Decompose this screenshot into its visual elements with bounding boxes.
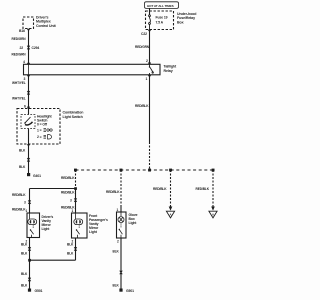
wire glove drop (dashed)	[120, 170, 122, 206]
svg-text:BLK: BLK	[19, 165, 26, 169]
wire label BLK	[19, 165, 26, 169]
pin 2	[146, 59, 148, 63]
wire label RED/BLK	[61, 176, 75, 180]
svg-text:3: 3	[24, 200, 26, 204]
wire label RED/BLK glove	[106, 190, 120, 194]
svg-text:0 = Off: 0 = Off	[37, 123, 48, 127]
svg-text:G501: G501	[35, 289, 43, 293]
svg-text:Box: Box	[177, 20, 184, 24]
label position 2 headlight icon	[37, 135, 42, 139]
wire label BLK	[21, 243, 28, 247]
svg-text:RED/BLK: RED/BLK	[196, 187, 210, 191]
svg-text:2: 2	[117, 240, 119, 244]
ground G401	[27, 173, 30, 176]
wire label BLK	[67, 243, 74, 247]
connector C22	[148, 30, 151, 32]
wire label BLK	[67, 251, 74, 255]
wire label RED/BLK	[135, 104, 149, 108]
wire fuse to relay pin 2	[149, 30, 151, 65]
lamp front passenger's vanity mirror light box	[72, 213, 88, 238]
wire from hot tag into fuse box	[149, 8, 151, 14]
wire label BLK	[21, 272, 28, 276]
svg-text:B16: B16	[19, 29, 25, 33]
svg-text:WHT/YEL: WHT/YEL	[12, 97, 26, 101]
svg-text:3: 3	[70, 198, 72, 202]
wire label RED/BLK arrow B	[196, 187, 210, 191]
wire label RED/BLK driver	[12, 193, 26, 197]
bulb symbol passenger	[74, 213, 83, 225]
label Front Passenger's Vanity Mirror Light	[89, 214, 108, 234]
wire label BLK	[21, 251, 28, 255]
label position 1 parking icon	[37, 128, 42, 132]
junction at feed	[148, 169, 151, 172]
svg-text:RED/BLK: RED/BLK	[12, 193, 26, 197]
headlight switch rotary contact	[24, 117, 32, 125]
svg-text:RED/BLK: RED/BLK	[106, 190, 120, 194]
wire label WHT/YEL	[12, 97, 26, 101]
svg-text:RED/BLK: RED/BLK	[153, 187, 167, 191]
wire relay pin1 down (solid part) RED/BLK	[149, 75, 151, 142]
pin tick relay pin4	[27, 63, 30, 65]
pin tick at B16	[27, 29, 30, 31]
wire combination switch to G401	[28, 144, 30, 173]
wire label BLK	[19, 149, 26, 153]
distribution wire to driver column	[30, 189, 76, 213]
svg-text:RED/BLK: RED/BLK	[12, 207, 26, 211]
switch inside driver light	[30, 224, 34, 237]
wire relay pin3 to combination light switch pin 6	[28, 75, 30, 109]
svg-text:G501: G501	[126, 289, 134, 293]
junction at glove drop	[120, 169, 123, 172]
combination light switch outer dashed box	[17, 109, 60, 145]
junction driver/passenger ground joint	[28, 259, 31, 262]
wire glove solid to light	[120, 206, 122, 213]
wire label RED/GRN	[12, 37, 27, 41]
svg-text:BLK: BLK	[67, 251, 74, 255]
svg-text:Light: Light	[129, 221, 138, 225]
svg-text:4: 4	[23, 60, 25, 64]
svg-text:1: 1	[26, 209, 28, 213]
svg-text:G401: G401	[33, 174, 41, 178]
pin 2 glove light bottom	[117, 240, 119, 244]
off-page connector arrow A	[166, 207, 174, 218]
connector tick mid	[27, 91, 30, 95]
wire into headlight switch	[28, 109, 30, 115]
pin tick switch pin6	[27, 107, 30, 109]
relay switch contact	[149, 64, 154, 75]
svg-text:BLK: BLK	[21, 251, 28, 255]
wire passenger column to light	[75, 189, 77, 213]
wire multiplex B16 to relay pin 4	[28, 29, 30, 65]
ground G501 left	[28, 289, 31, 292]
junction at arrow B drop	[212, 169, 215, 172]
lamp glove box light	[117, 212, 127, 238]
pin 1 driver light	[26, 209, 28, 213]
wire label RED/BLK passenger	[61, 190, 75, 194]
svg-text:Light: Light	[42, 227, 51, 231]
junction at arrow A drop	[169, 169, 172, 172]
connector tick glove ground	[120, 271, 123, 275]
lamp driver's vanity mirror light box	[27, 213, 40, 238]
wire switch to ground exit	[28, 129, 30, 145]
svg-text:1 =: 1 =	[37, 128, 42, 132]
connector tick passenger ground	[74, 247, 77, 251]
svg-text:RED/GRN: RED/GRN	[12, 53, 27, 57]
pin 3	[24, 77, 26, 81]
svg-text:7.5 A: 7.5 A	[156, 20, 164, 24]
svg-text:Fuse 19: Fuse 19	[156, 15, 168, 19]
svg-text:2: 2	[146, 59, 148, 63]
pin tick switch ground exit	[27, 144, 30, 146]
pin B16	[19, 29, 25, 33]
label Fuse 19 7.5A	[156, 15, 168, 24]
connector tick driver ground	[28, 247, 31, 251]
pin 1	[146, 77, 148, 81]
wire label RED/GRN	[12, 53, 27, 57]
junction at passenger column	[74, 187, 77, 190]
label Driver's Vanity Mirror Light	[42, 215, 54, 231]
pin 2 passenger light bottom	[72, 240, 74, 244]
pin 4	[23, 60, 25, 64]
wire label RED/BLK arrow A	[153, 187, 167, 191]
off-page connector arrow B	[209, 207, 217, 218]
wire glove light to ground	[120, 238, 122, 289]
wire label RED/BLK driver lower	[12, 207, 26, 211]
wire dashed part to splice bus	[149, 142, 151, 170]
ground G501 glove	[119, 289, 122, 292]
headlight switch S1 inner dashed box	[21, 115, 35, 129]
svg-text:1: 1	[117, 208, 119, 212]
svg-text:3: 3	[24, 77, 26, 81]
label Combination Light Switch	[63, 111, 84, 119]
svg-text:RED/GRN: RED/GRN	[135, 45, 150, 49]
connector tick passenger feed	[74, 198, 77, 202]
wire label WHT/YEL	[12, 81, 26, 85]
wire label BLK	[21, 283, 28, 287]
wire label RED/GRN	[135, 45, 150, 49]
connector tick	[27, 158, 30, 162]
wire arrow A drop (dashed)	[170, 170, 172, 207]
svg-text:Light Switch: Light Switch	[63, 115, 83, 119]
fuse F19 symbol	[149, 15, 151, 30]
wire label BLK	[113, 250, 120, 254]
pin tick relay pin3	[27, 75, 30, 77]
svg-text:RED/GRN: RED/GRN	[12, 37, 27, 41]
svg-text:2 =: 2 =	[37, 135, 42, 139]
svg-text:Light: Light	[89, 230, 98, 234]
junction at passenger drop	[74, 169, 77, 172]
relay K1 Taillight Relay box	[24, 64, 161, 75]
pin 1 glove light	[117, 208, 119, 212]
svg-text:BLK: BLK	[21, 272, 28, 276]
fuse box (under-hood fuse/relay box, dashed)	[146, 11, 174, 30]
wire passenger light to joint	[30, 238, 76, 260]
relay coil path pin4 to pin3	[28, 64, 30, 75]
svg-text:RED/BLK: RED/BLK	[135, 104, 149, 108]
svg-text:22: 22	[20, 46, 24, 50]
pin 6	[24, 104, 26, 108]
bulb symbol glove	[118, 212, 124, 223]
switch inside passenger light	[76, 224, 80, 238]
connector tick driver feed	[28, 200, 31, 204]
svg-text:A: A	[212, 212, 214, 216]
wire passenger drop (dashed to distribution line)	[75, 170, 77, 189]
svg-text:RED/BLK: RED/BLK	[61, 190, 75, 194]
wire driver light to ground joint	[29, 238, 31, 261]
svg-text:RED/BLK: RED/BLK	[61, 176, 75, 180]
svg-text:C294: C294	[32, 46, 40, 50]
svg-text:Control Unit: Control Unit	[36, 24, 56, 28]
hot-at-all-times tag	[145, 2, 179, 9]
label Headlight Switch 0 = Off	[37, 115, 53, 127]
svg-text:BLK: BLK	[21, 283, 28, 287]
wire label BLK	[113, 283, 120, 287]
bulb symbol driver	[28, 213, 37, 225]
connector C294 cavity 22	[27, 46, 30, 50]
pin 2 driver light bottom	[26, 240, 28, 244]
wire joint to G501	[29, 260, 31, 288]
switch inside glove light	[119, 223, 123, 238]
control unit U1 Driver's Multiplex Control Unit (dashed box)	[23, 17, 34, 29]
pin tick relay pin1	[148, 75, 151, 77]
connector tick lower	[28, 278, 31, 282]
label Driver's Multiplex Control Unit	[36, 15, 56, 27]
svg-text:HOT AT ALL TIMES: HOT AT ALL TIMES	[147, 4, 174, 8]
pin tick relay pin2	[148, 63, 151, 65]
label Under-hood Fuse/Relay Box	[177, 12, 196, 24]
svg-text:WHT/YEL: WHT/YEL	[12, 81, 26, 85]
splice bus (dashed)	[76, 169, 214, 171]
svg-text:6: 6	[24, 104, 26, 108]
svg-text:BLK: BLK	[19, 149, 26, 153]
wire label RED/BLK passenger lower	[61, 205, 75, 209]
label Glove Box Light	[129, 213, 138, 225]
svg-text:1: 1	[146, 77, 148, 81]
pin 1 passenger light	[72, 209, 74, 213]
svg-text:BLK: BLK	[113, 250, 120, 254]
svg-text:BLK: BLK	[21, 243, 28, 247]
label Taillight Relay	[164, 65, 178, 73]
svg-text:Relay: Relay	[164, 69, 173, 73]
svg-text:C22: C22	[141, 32, 147, 36]
svg-text:BLK: BLK	[67, 243, 74, 247]
wire arrow B drop (dashed)	[212, 170, 214, 207]
svg-text:BLK: BLK	[113, 283, 120, 287]
svg-text:A: A	[170, 212, 172, 216]
